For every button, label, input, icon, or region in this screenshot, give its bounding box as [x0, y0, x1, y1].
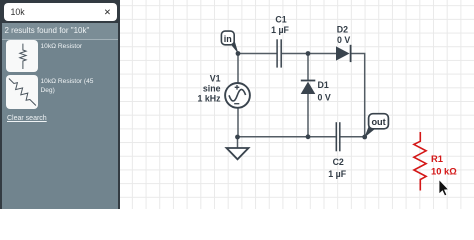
wire bottom rail right: [341, 136, 365, 138]
node in flag: [221, 31, 238, 54]
node junction at in: [236, 51, 241, 56]
label D1: [318, 80, 331, 102]
svg-text:R1: R1: [431, 153, 443, 164]
wire D2 cathode to out corner: [351, 54, 365, 138]
svg-text:C2: C2: [333, 157, 344, 167]
voltage source V1: [225, 83, 250, 108]
search result 1 icon: 10k resistor: [6, 40, 38, 72]
svg-text:V1: V1: [210, 74, 221, 84]
capacitor C1: [277, 39, 281, 67]
wire ground stub: [237, 137, 239, 148]
node junction at out: [362, 135, 367, 140]
label V1: [198, 74, 222, 104]
svg-text:1 µF: 1 µF: [271, 25, 289, 35]
wire C1 to node A: [282, 53, 308, 55]
svg-text:in: in: [224, 34, 232, 44]
diode D1: [301, 81, 316, 95]
resistor R1 (red, being placed): [414, 132, 426, 191]
label C2: [328, 157, 346, 179]
svg-text:0 V: 0 V: [337, 35, 350, 45]
node junction at ground: [235, 135, 240, 140]
svg-text:out: out: [371, 117, 385, 127]
search result 2 icon: 10k resistor 45 deg: [6, 75, 38, 109]
svg-text:D1: D1: [318, 80, 329, 90]
wire V1 top: [237, 54, 239, 83]
svg-text:sine: sine: [203, 84, 221, 94]
svg-text:1 kHz: 1 kHz: [198, 94, 222, 104]
svg-text:D2: D2: [337, 24, 348, 34]
label D2: [337, 24, 351, 45]
wire bottom rail left: [238, 136, 336, 138]
component search panel: [0, 0, 120, 209]
mouse cursor: [439, 180, 449, 196]
svg-text:1 µF: 1 µF: [328, 169, 346, 179]
node junction D1 bottom: [306, 134, 311, 139]
label R1: [431, 153, 457, 176]
capacitor C2: [336, 122, 340, 151]
wire V1 bottom: [237, 108, 239, 137]
wire D1 bottom: [307, 94, 309, 137]
diode D2: [336, 45, 351, 62]
svg-text:10 kΩ: 10 kΩ: [431, 165, 457, 176]
svg-text:0 V: 0 V: [318, 92, 331, 102]
svg-text:C1: C1: [275, 14, 286, 24]
label C1: [271, 14, 289, 35]
wire node A to D2 anode: [308, 53, 336, 55]
ground: [227, 148, 249, 159]
node out flag: [364, 114, 388, 138]
node A junction: [306, 51, 311, 56]
wire node-in to C1: [238, 53, 277, 55]
wire D1 top: [307, 54, 309, 81]
